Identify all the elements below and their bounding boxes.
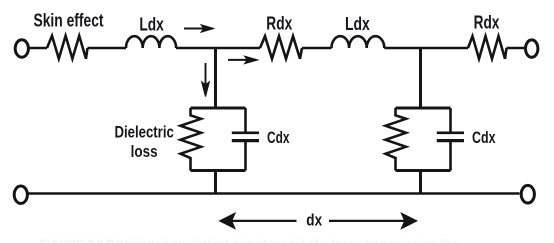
wire bbox=[88, 47, 127, 50]
wire bbox=[302, 47, 332, 50]
svg-text:Rdx: Rdx bbox=[266, 14, 292, 34]
svg-text:Skin effect: Skin effect bbox=[34, 11, 104, 31]
resistor Rdx (first) bbox=[260, 36, 302, 59]
wire bbox=[176, 47, 260, 50]
resistor Skin effect bbox=[47, 36, 88, 59]
terminal right top bbox=[526, 40, 538, 57]
svg-text:loss: loss bbox=[131, 142, 158, 161]
svg-text:Cdx: Cdx bbox=[472, 128, 496, 147]
wire shunt feed 2 bbox=[419, 48, 422, 107]
wire shunt to rail 1 bbox=[214, 171, 217, 194]
arrow current top bbox=[184, 25, 213, 32]
svg-text:Ldx: Ldx bbox=[345, 14, 370, 34]
terminal right bottom bbox=[521, 185, 534, 203]
svg-text:Ldx: Ldx bbox=[139, 15, 163, 35]
terminal left bottom bbox=[14, 186, 27, 203]
svg-text:Rdx: Rdx bbox=[474, 12, 500, 32]
inductor Ldx (first) bbox=[126, 36, 176, 48]
resistor Dielectric loss 2 bbox=[386, 108, 407, 171]
wire shunt to rail 2 bbox=[419, 171, 422, 194]
arrow dx right bbox=[329, 213, 417, 228]
wire shunt feed 1 bbox=[214, 48, 217, 107]
resistor Dielectric loss 1 bbox=[181, 108, 202, 171]
arrow down shunt bbox=[202, 63, 209, 97]
svg-text:Dielectric: Dielectric bbox=[115, 123, 174, 142]
wire bbox=[384, 47, 468, 50]
arrow current mid bbox=[228, 56, 258, 63]
wire bbox=[507, 47, 526, 50]
capacitor Cdx 1 bbox=[244, 108, 247, 171]
wire bottom bar branch 1 bbox=[191, 169, 246, 172]
inductor Ldx (second) bbox=[332, 36, 385, 48]
terminal left top bbox=[15, 40, 28, 57]
arrow dx left bbox=[220, 213, 297, 228]
wire bottom bar branch 2 bbox=[396, 169, 451, 172]
capacitor Cdx 2 bbox=[449, 108, 452, 171]
wire bbox=[29, 47, 48, 50]
wire top bar branch 2 bbox=[396, 107, 451, 110]
wire bottom rail bbox=[29, 192, 520, 195]
svg-text:dx: dx bbox=[306, 210, 322, 229]
wire top bar branch 1 bbox=[191, 107, 246, 110]
svg-text:FIGURE 2.8 Distributed equiv: FIGURE 2.8 Distributed equivalent circui… bbox=[40, 236, 460, 243]
resistor Rdx (second) bbox=[468, 36, 507, 59]
svg-text:Cdx: Cdx bbox=[267, 128, 290, 147]
